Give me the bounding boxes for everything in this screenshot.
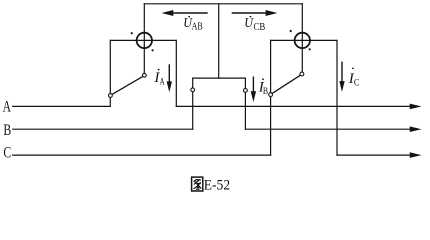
wire: line B right segment — [245, 128, 411, 130]
polarity dot W1 lower-right — [152, 49, 154, 51]
svg-text:C: C — [354, 77, 360, 87]
label U_AB — [183, 16, 203, 33]
terminal: W1 line-A socket — [109, 94, 113, 98]
terminal: B right socket — [244, 89, 248, 93]
polarity dot W2 upper-left — [290, 30, 292, 32]
wire: line C left segment — [13, 154, 271, 156]
terminal: W1 voltage tap socket — [143, 73, 147, 77]
caption: hanzi TU (figure) drawn as strokes — [192, 177, 203, 191]
wire: line C right segment — [337, 154, 412, 156]
wire: B left drop — [192, 78, 194, 129]
wire: line B left segment — [13, 128, 193, 130]
svg-text:CB: CB — [254, 22, 266, 33]
wattmeter W2 current/voltage coil circle — [295, 33, 310, 48]
terminal: B left socket — [191, 88, 195, 92]
terminal: W2 voltage tap socket — [300, 72, 304, 76]
wire: B tap horizontal bus — [193, 77, 246, 79]
wire: B right drop — [244, 78, 246, 129]
voltage arrow U_CB (pointing right) — [232, 10, 278, 16]
wire: W1 current coil left vertical — [109, 40, 111, 106]
current arrow I_B (pointing down) — [251, 77, 256, 103]
svg-text:E-52: E-52 — [204, 177, 230, 193]
polarity dot W1 upper-left — [131, 32, 133, 34]
svg-text:A: A — [160, 77, 166, 87]
polarity dot W2 lower-right — [309, 48, 311, 50]
wire: line A right segment — [176, 105, 411, 107]
line B output arrowhead — [410, 126, 422, 132]
wire: W2 current coil left vertical to line C — [270, 40, 272, 155]
line C output arrowhead — [410, 152, 422, 158]
wire: W1 current coil right vertical — [175, 40, 177, 106]
terminal: W2 line-C socket — [269, 93, 273, 97]
wire: W2 voltage coil vertical — [301, 4, 303, 72]
svg-text:U: U — [244, 16, 254, 31]
label U_CB — [244, 16, 265, 33]
wire: W2 current coil right vertical — [336, 40, 338, 155]
line A output arrowhead — [410, 104, 422, 110]
wire: W2 current coil line — [271, 39, 337, 41]
svg-text:A: A — [3, 98, 12, 115]
label I_B — [258, 78, 268, 96]
current arrow I_A (pointing down) — [167, 64, 172, 92]
svg-text:B: B — [263, 86, 268, 96]
wire: middle vertical to B tap — [218, 4, 220, 78]
label I_C — [348, 68, 360, 88]
wire: line A left segment — [13, 105, 111, 107]
switch blade W1 — [112, 76, 143, 94]
wattmeter W1 current/voltage coil circle — [137, 33, 152, 48]
svg-text:C: C — [3, 145, 11, 162]
svg-text:B: B — [3, 122, 11, 139]
current arrow I_C (pointing down) — [339, 62, 344, 92]
switch blade W2 — [272, 75, 300, 93]
svg-text:AB: AB — [192, 21, 203, 32]
voltage arrow U_AB (pointing left) — [162, 10, 208, 16]
label I_A — [153, 69, 165, 87]
wire: W1 current coil line — [110, 39, 176, 41]
wire: W1 voltage coil vertical — [143, 4, 145, 74]
wire: top voltage bus — [144, 3, 302, 5]
